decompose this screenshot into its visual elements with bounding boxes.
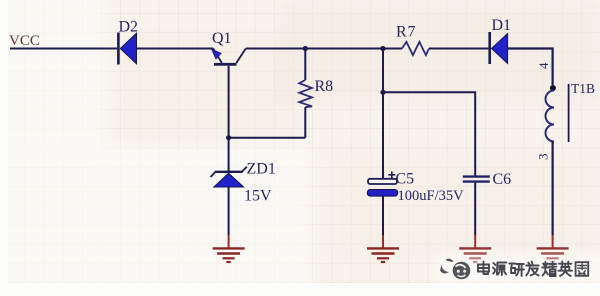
- polarity dot node: [550, 85, 556, 91]
- wire VCC to D2: [10, 48, 117, 50]
- transistor Q1: [212, 30, 246, 138]
- char 英: [559, 262, 573, 277]
- svg-text:D2: D2: [119, 19, 139, 36]
- inductor winding T1B: [546, 81, 596, 142]
- char 发: [526, 262, 539, 276]
- char 电: [478, 262, 489, 275]
- char 英: [559, 262, 573, 277]
- char 圈: [576, 262, 589, 276]
- wire C6 to ground: [474, 183, 476, 235]
- svg-text:R7: R7: [396, 24, 416, 41]
- wire D2 to Q1: [137, 48, 214, 50]
- svg-text:4: 4: [536, 62, 551, 69]
- svg-text:C5: C5: [396, 171, 415, 188]
- resistor R7: [383, 24, 429, 56]
- wire branch to C6: [383, 92, 475, 175]
- wire Q1 collector to R7 node: [246, 48, 383, 50]
- wire rail node down to C5 branch: [382, 49, 384, 93]
- watermark backdrop: [437, 254, 600, 286]
- svg-text:ZD1: ZD1: [247, 161, 276, 178]
- soft background lightening (bottom-left quadrant like target): [0, 145, 310, 295]
- char 精: [542, 262, 556, 276]
- ground under ZD1: [213, 235, 245, 262]
- char 圈: [576, 262, 589, 276]
- ground under T1B: [537, 235, 569, 262]
- svg-text:VCC: VCC: [9, 33, 40, 49]
- svg-text:3: 3: [536, 154, 551, 161]
- wire C5 to ground: [382, 196, 384, 235]
- svg-text:15V: 15V: [244, 188, 272, 205]
- wire branch down to C5: [382, 92, 384, 178]
- wire ZD1 to ground: [228, 187, 230, 235]
- watermark text 电源研发精英圈: [478, 262, 588, 277]
- node junction at R8 top: [303, 46, 308, 51]
- svg-text:Q1: Q1: [212, 30, 232, 47]
- char 源: [493, 263, 507, 276]
- diode D2: [117, 19, 138, 65]
- char 电: [478, 262, 489, 275]
- svg-text:D1: D1: [492, 17, 512, 34]
- svg-text:T1B: T1B: [571, 81, 595, 96]
- watermark logo: [440, 259, 470, 280]
- zener diode ZD1: [211, 161, 276, 205]
- node junction at R7 left: [380, 46, 385, 51]
- diode D1: [488, 17, 511, 64]
- ground under C5: [367, 235, 399, 262]
- wire D1 to transformer pin 4: [508, 49, 553, 86]
- svg-text:R8: R8: [315, 78, 334, 95]
- char 研: [509, 264, 524, 277]
- svg-text:100uF/35V: 100uF/35V: [398, 188, 465, 204]
- svg-text:C6: C6: [493, 171, 512, 188]
- char 发: [526, 262, 539, 276]
- node junction at C5/C6 branch: [380, 90, 385, 95]
- node junction at Q1 base / ZD1: [226, 135, 231, 140]
- capacitor C5: [367, 171, 464, 205]
- char 源: [493, 263, 507, 276]
- char 研: [509, 264, 524, 277]
- ground under C6: [459, 235, 491, 262]
- resistor R8: [299, 49, 333, 138]
- wire node to ZD1: [228, 138, 230, 172]
- warm mottling patches: [280, 0, 600, 105]
- watermark text glow: [478, 262, 588, 277]
- wire R7 to D1: [429, 48, 488, 50]
- wire R8 bottom to Q1 base: [229, 137, 306, 139]
- wire T1B to ground: [551, 142, 553, 236]
- char 精: [542, 262, 556, 276]
- capacitor C6: [463, 171, 511, 188]
